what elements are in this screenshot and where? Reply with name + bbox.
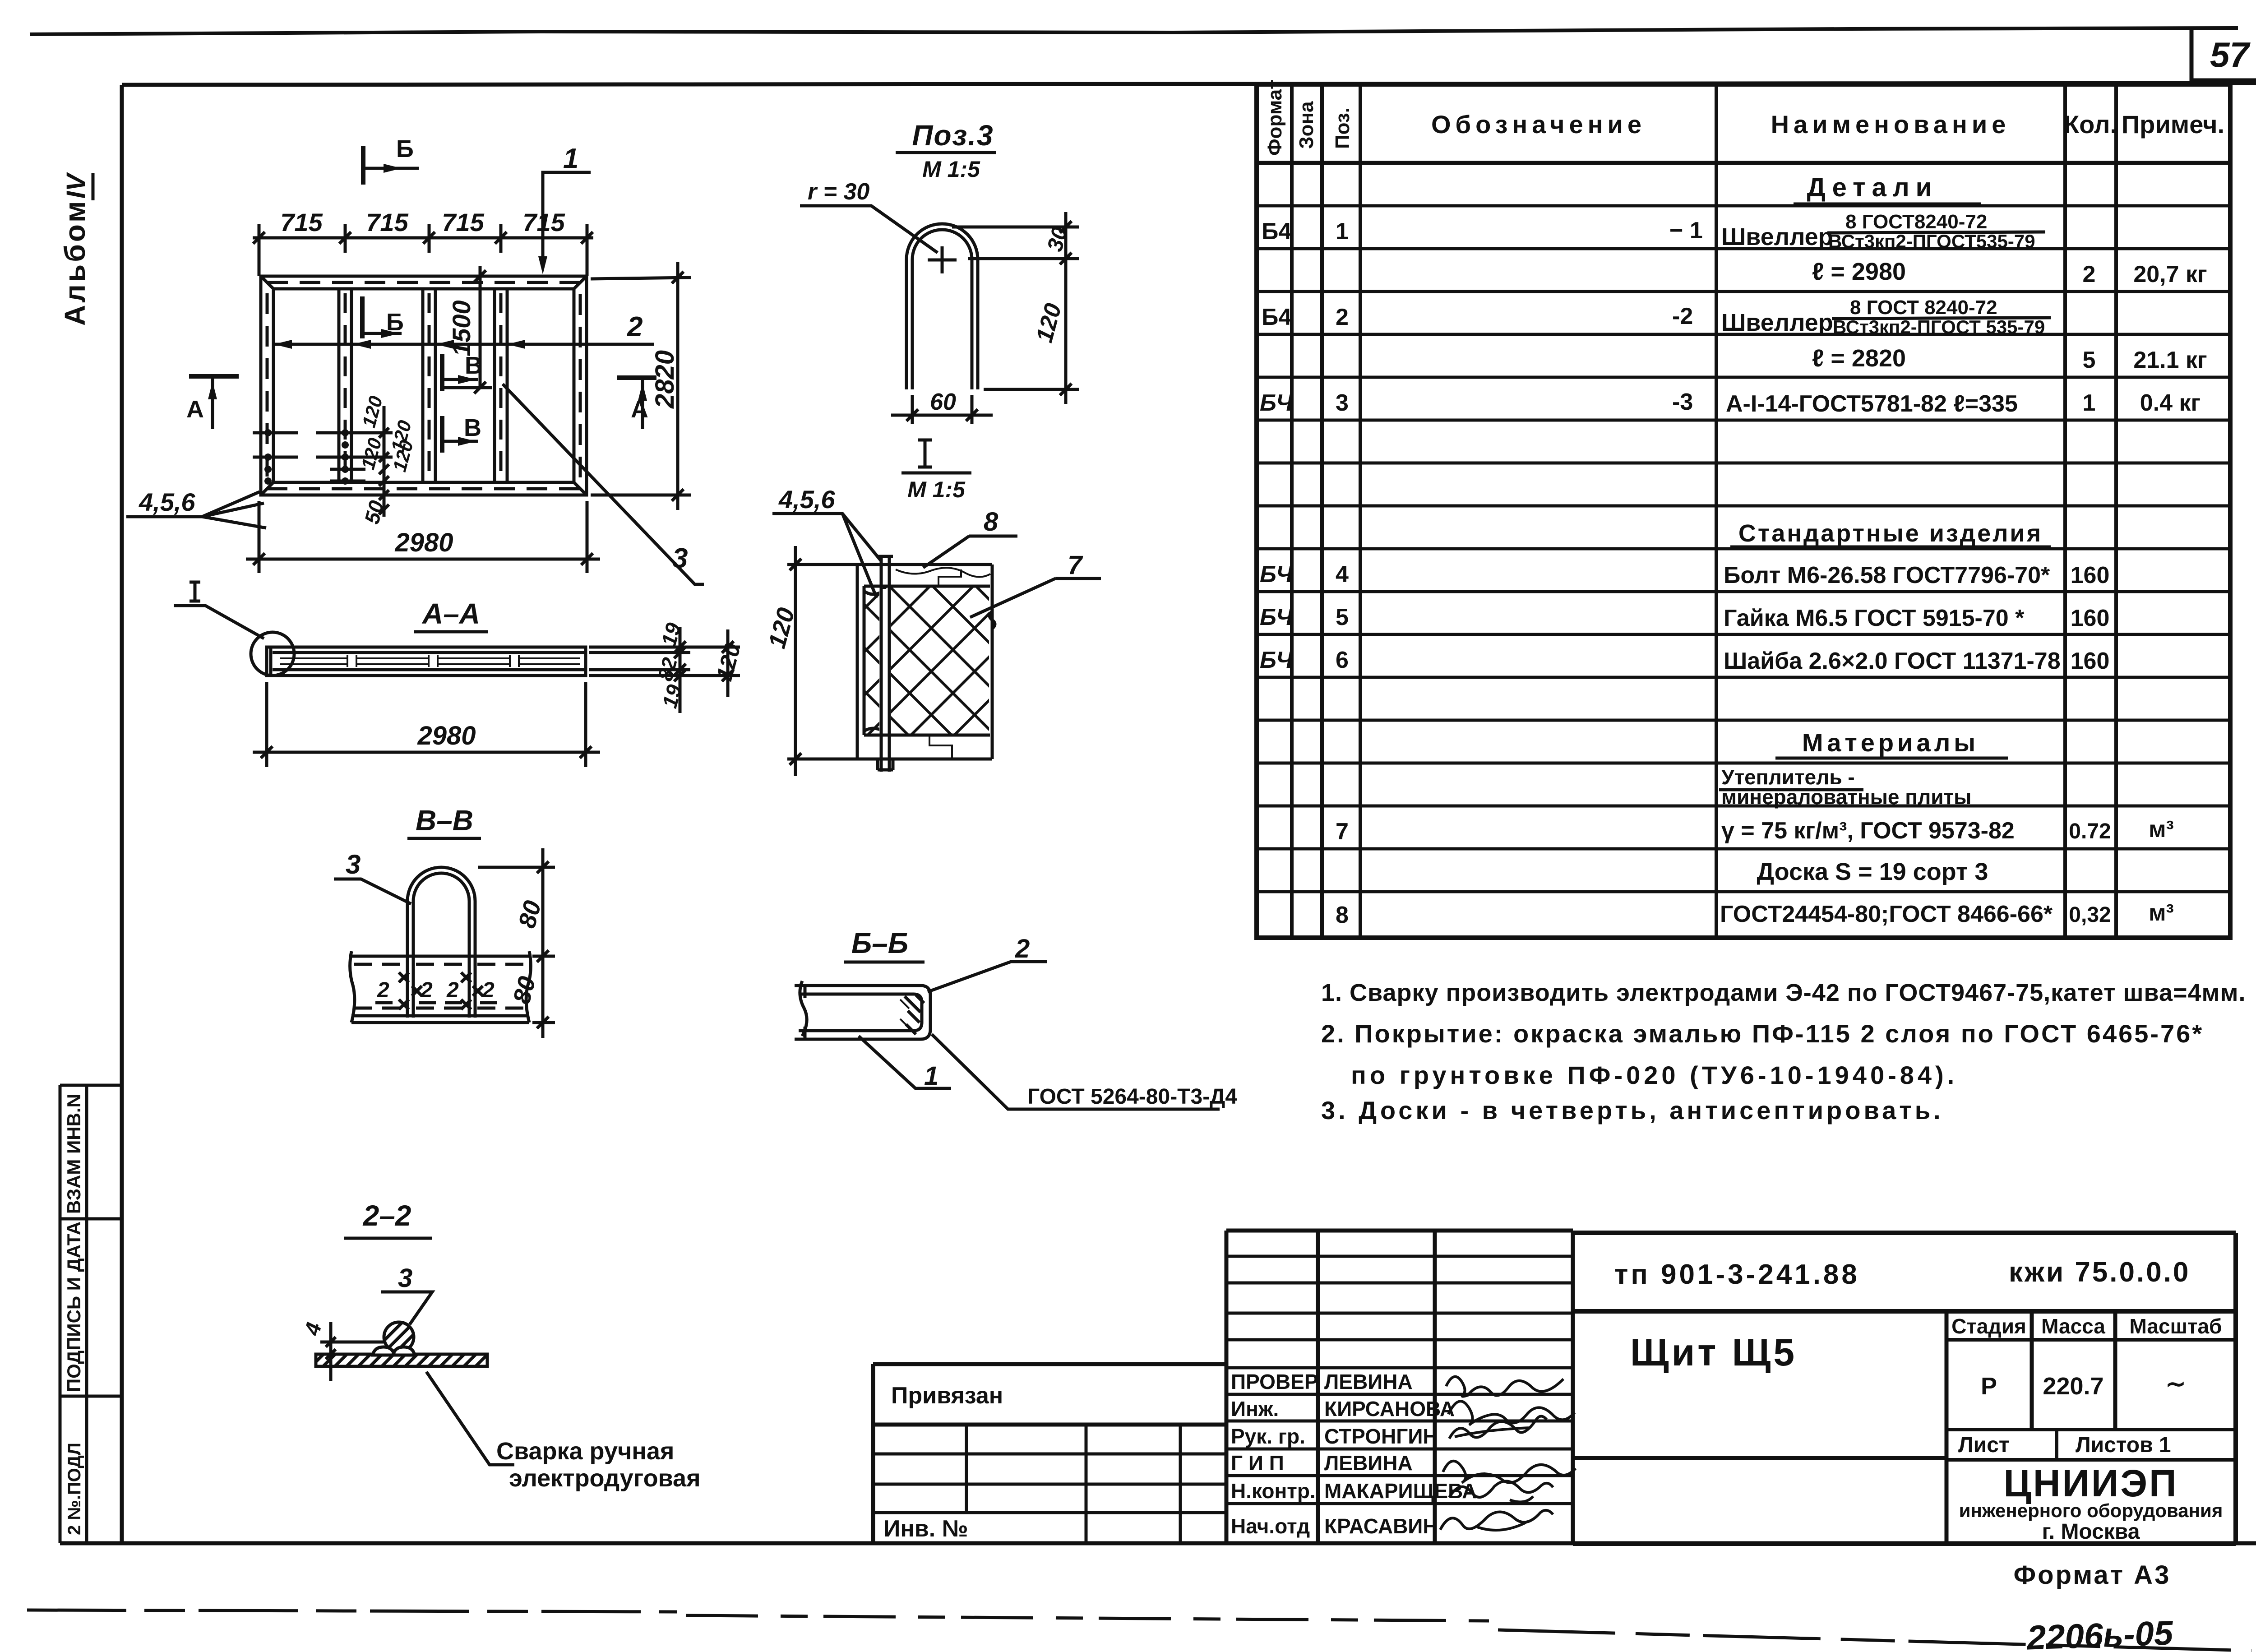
- svg-text:Листов 1: Листов 1: [2076, 1433, 2171, 1457]
- drawing frame: [120, 85, 124, 1543]
- staple in V-V: [407, 867, 475, 1018]
- svg-text:-2: -2: [1672, 303, 1693, 329]
- svg-text:7: 7: [1068, 551, 1083, 580]
- svg-text:220.7: 220.7: [2043, 1373, 2103, 1400]
- svg-text:Поз.: Поз.: [1331, 107, 1354, 149]
- top dimension chain 715 x4: [253, 224, 593, 276]
- svg-text:ЦНИИЭП: ЦНИИЭП: [2004, 1462, 2178, 1504]
- svg-text:2: 2: [627, 311, 643, 342]
- svg-text:4: 4: [1336, 561, 1349, 588]
- svg-text:Шайба 2.6×2.0 ГОСТ 11371-78: Шайба 2.6×2.0 ГОСТ 11371-78: [1724, 648, 2061, 674]
- signatures (cursive scrawls): [1440, 1377, 1576, 1530]
- section mark А (left): [189, 376, 239, 429]
- svg-text:0,32: 0,32: [2069, 903, 2111, 927]
- svg-text:м³: м³: [2149, 816, 2174, 842]
- svg-text:м³: м³: [2149, 900, 2174, 926]
- detail I: bolt poz.4 with nut and washer: [879, 589, 891, 733]
- svg-text:Рук. гр.: Рук. гр.: [1231, 1425, 1305, 1448]
- svg-text:8 ГОСТ8240-72: 8 ГОСТ8240-72: [1845, 211, 1987, 233]
- svg-text:2: 2: [420, 978, 433, 1002]
- svg-text:2. Покрытие: окраска эмалью ПФ: 2. Покрытие: окраска эмалью ПФ-115 2 сло…: [1321, 1019, 2204, 1048]
- svg-text:4,5,6: 4,5,6: [139, 488, 195, 516]
- svg-text:57: 57: [2210, 35, 2251, 74]
- svg-text:Б: Б: [386, 309, 404, 336]
- svg-text:А: А: [631, 396, 648, 423]
- section mark Б (top): [363, 146, 419, 185]
- svg-text:1: 1: [563, 143, 578, 174]
- panel frame plan: outer channel rectangle: [261, 276, 587, 495]
- svg-text:Швеллер: Швеллер: [1721, 309, 1833, 336]
- svg-text:Формат А3: Формат А3: [2014, 1560, 2171, 1590]
- arc center cross: [928, 246, 957, 273]
- svg-text:тп 901-3-241.88: тп 901-3-241.88: [1614, 1259, 1860, 1290]
- svg-text:Привязан: Привязан: [891, 1383, 1003, 1409]
- page number box 57: [2191, 29, 2256, 80]
- leader 3 (staple, plan diagonal): [503, 384, 704, 584]
- svg-text:7: 7: [1336, 819, 1349, 845]
- bottom scan dashed line: [27, 1610, 677, 1612]
- svg-text:6: 6: [1336, 647, 1349, 673]
- detail circle I on A-A: [251, 632, 294, 676]
- svg-text:3: 3: [1336, 390, 1349, 416]
- svg-text:Альбом: Альбом: [59, 199, 91, 326]
- svg-text:КРАСАВИН: КРАСАВИН: [1324, 1514, 1438, 1538]
- detail I: left channel web: [857, 565, 883, 759]
- svg-text:20,7 кг: 20,7 кг: [2133, 261, 2207, 287]
- svg-text:3: 3: [346, 849, 361, 879]
- svg-text:2980: 2980: [417, 721, 476, 750]
- svg-text:0.72: 0.72: [2069, 819, 2111, 843]
- vertical caption: Альбом IV: [59, 172, 93, 326]
- left margin boxes: [60, 1085, 122, 1543]
- sub-label I M1:5: [918, 440, 932, 467]
- svg-text:3: 3: [672, 543, 688, 574]
- svg-text:инженерного оборудования: инженерного оборудования: [1959, 1500, 2223, 1521]
- svg-text:1: 1: [1336, 218, 1349, 245]
- dim 1500 (vertical, inner): [444, 266, 492, 393]
- svg-text:ВСт3кп2-ПГОСТ 535-79: ВСт3кп2-ПГОСТ 535-79: [1833, 316, 2045, 338]
- staple bar cross-section in 2-2: [384, 1322, 414, 1352]
- svg-text:А-I-14-ГОСТ5781-82 ℓ=335: А-I-14-ГОСТ5781-82 ℓ=335: [1726, 391, 2018, 417]
- svg-text:Б: Б: [396, 135, 414, 162]
- svg-text:Доска S = 19 сорт 3: Доска S = 19 сорт 3: [1757, 858, 1988, 885]
- svg-text:ЛЕВИНА: ЛЕВИНА: [1324, 1451, 1413, 1475]
- svg-text:r = 30: r = 30: [808, 179, 869, 205]
- svg-text:Примеч.: Примеч.: [2122, 110, 2224, 139]
- svg-text:2: 2: [1336, 304, 1349, 330]
- svg-text:Стандартные изделия: Стандартные изделия: [1738, 520, 2043, 547]
- svg-text:Болт М6-26.58 ГОСТ7796-70*: Болт М6-26.58 ГОСТ7796-70*: [1724, 562, 2050, 588]
- dim 2820 (right side): [591, 262, 691, 510]
- svg-text:ЛЕВИНА: ЛЕВИНА: [1324, 1370, 1413, 1393]
- svg-text:г. Москва: г. Москва: [2042, 1520, 2140, 1544]
- svg-text:М 1:5: М 1:5: [922, 157, 980, 182]
- svg-text:БЧ: БЧ: [1260, 561, 1293, 588]
- svg-text:-3: -3: [1672, 389, 1693, 415]
- svg-text:В: В: [465, 352, 482, 379]
- weld zone hatch in B-B: [905, 995, 924, 1034]
- svg-text:ПОДПИСЬ И ДАТА: ПОДПИСЬ И ДАТА: [63, 1222, 84, 1392]
- svg-text:ℓ = 2980: ℓ = 2980: [1812, 258, 1906, 285]
- svg-text:Щит Щ5: Щит Щ5: [1630, 1331, 1797, 1374]
- svg-text:1. Сварку производить электрод: 1. Сварку производить электродами Э-42 п…: [1321, 979, 2246, 1006]
- svg-text:2: 2: [1015, 934, 1030, 963]
- dim 120 (detail I, left): [787, 546, 859, 776]
- svg-text:Сварка ручная: Сварка ручная: [496, 1438, 674, 1465]
- svg-text:60: 60: [930, 389, 956, 415]
- svg-text:Лист: Лист: [1958, 1433, 2009, 1457]
- svg-text:СТРОНГИН: СТРОНГИН: [1324, 1425, 1438, 1448]
- svg-text:кжи 75.0.0.0: кжи 75.0.0.0: [2009, 1257, 2190, 1288]
- title block: signature table: [1226, 1231, 1573, 1543]
- small dim chain 120/120/120/120/50: [253, 406, 393, 517]
- svg-text:Обозначение: Обозначение: [1431, 110, 1646, 139]
- svg-text:В–В: В–В: [416, 804, 473, 837]
- weld x-marks on staple legs: [399, 972, 483, 1009]
- svg-text:ℓ = 2820: ℓ = 2820: [1812, 345, 1906, 372]
- svg-text:А: А: [186, 396, 204, 423]
- dim 2980 under A-A: [253, 682, 600, 767]
- svg-text:2: 2: [2083, 261, 2096, 287]
- svg-text:КИРСАНОВА: КИРСАНОВА: [1324, 1397, 1455, 1421]
- svg-text:ПРОВЕР.: ПРОВЕР.: [1231, 1370, 1321, 1393]
- stud 3 (poz.2 channel): [495, 289, 507, 482]
- svg-text:ГОСТ24454-80;ГОСТ 8466-66*: ГОСТ24454-80;ГОСТ 8466-66*: [1720, 901, 2053, 927]
- dim 4 (weld height): [320, 1322, 384, 1381]
- svg-text:БЧ: БЧ: [1260, 390, 1293, 416]
- svg-text:Гайка М6.5 ГОСТ 5915-70 *: Гайка М6.5 ГОСТ 5915-70 *: [1724, 605, 2025, 631]
- BOM table grid: [1257, 84, 2230, 938]
- svg-text:1: 1: [2083, 390, 2096, 416]
- svg-text:БЧ: БЧ: [1260, 604, 1293, 630]
- title block: Привязан box: [873, 1364, 1226, 1543]
- svg-text:ВСт3кп2-ПГОСТ535-79: ВСт3кп2-ПГОСТ535-79: [1828, 231, 2035, 252]
- svg-text:А–А: А–А: [421, 597, 480, 630]
- svg-text:Инв. №: Инв. №: [883, 1516, 968, 1542]
- svg-text:ВЗАМ ИНВ.N: ВЗАМ ИНВ.N: [63, 1094, 84, 1214]
- svg-text:М 1:5: М 1:5: [907, 477, 966, 502]
- svg-text:2 №.ПОДЛ: 2 №.ПОДЛ: [65, 1443, 84, 1535]
- staple poz.3 U-bar: [906, 224, 978, 389]
- svg-text:Кол.: Кол.: [2064, 110, 2117, 139]
- top scan edge line: [30, 28, 2238, 34]
- hidden flange dashed lines of frame: [267, 282, 580, 489]
- svg-text:γ = 75 кг/м³, ГОСТ 9573-82: γ = 75 кг/м³, ГОСТ 9573-82: [1721, 818, 2015, 844]
- svg-text:8 ГОСТ 8240-72: 8 ГОСТ 8240-72: [1850, 296, 1997, 319]
- svg-text:160: 160: [2071, 648, 2110, 674]
- svg-text:Б–Б: Б–Б: [851, 927, 908, 959]
- section mark А (right): [617, 378, 656, 429]
- svg-text:Н.контр.: Н.контр.: [1231, 1479, 1316, 1503]
- plate in 2-2 (hatched): [316, 1354, 487, 1366]
- svg-text:160: 160: [2071, 605, 2110, 631]
- svg-text:2–2: 2–2: [363, 1199, 411, 1232]
- weld beads: [373, 1347, 415, 1355]
- svg-text:Нач.отд: Нач.отд: [1231, 1514, 1310, 1538]
- dims 19/82/19 and 120 right of A-A: [589, 627, 740, 713]
- detail I: bottom board (poz.8): [857, 735, 992, 759]
- svg-text:Наименование: Наименование: [1771, 110, 2011, 139]
- svg-text:∼: ∼: [2165, 1370, 2186, 1397]
- dim 60 (bottom of staple): [891, 395, 993, 424]
- svg-text:Б4: Б4: [1262, 304, 1291, 330]
- svg-text:электродуговая: электродуговая: [509, 1465, 701, 1492]
- stud 2 (poz.2 channel): [423, 289, 435, 482]
- svg-text:160: 160: [2071, 562, 2110, 588]
- svg-text:Масштаб: Масштаб: [2130, 1314, 2222, 1338]
- section mark В (upper): [442, 354, 478, 391]
- svg-text:2: 2: [377, 978, 389, 1002]
- svg-text:1: 1: [924, 1061, 938, 1091]
- svg-text:1500: 1500: [447, 300, 476, 356]
- svg-text:2980: 2980: [394, 528, 453, 557]
- svg-text:8: 8: [1336, 902, 1349, 928]
- channel flange plate in V-V: [350, 951, 531, 1023]
- svg-text:Р: Р: [1981, 1373, 1997, 1400]
- svg-text:2: 2: [482, 978, 495, 1002]
- svg-text:0.4 кг: 0.4 кг: [2140, 390, 2201, 416]
- stud 1 (poz.2 channel): [339, 289, 351, 482]
- svg-text:Формат: Формат: [1264, 79, 1286, 156]
- svg-text:715: 715: [280, 208, 323, 236]
- svg-text:В: В: [464, 414, 481, 441]
- svg-text:Масса: Масса: [2041, 1314, 2105, 1338]
- svg-text:3: 3: [398, 1263, 412, 1293]
- svg-text:21.1 кг: 21.1 кг: [2133, 347, 2207, 373]
- detail I: top board (poz.8): [857, 565, 992, 759]
- svg-text:Детали: Детали: [1807, 173, 1938, 202]
- callout 2 (studs poz.2): [274, 343, 654, 346]
- detail I: right break edge: [989, 611, 995, 629]
- svg-text:Поз.3: Поз.3: [912, 119, 994, 152]
- dim 30 / 120 (right of staple): [952, 212, 1079, 404]
- svg-text:− 1: − 1: [1669, 217, 1703, 244]
- svg-text:Зона: Зона: [1295, 101, 1318, 149]
- section mark Б (inner): [362, 296, 402, 338]
- title block: right part: [1573, 1233, 2236, 1544]
- channel profile in B-B: [795, 981, 930, 1039]
- callout 1 (top channel poz.1): [543, 172, 591, 264]
- svg-text:минераловатные плиты: минераловатные плиты: [1721, 785, 1971, 809]
- svg-text:ГОСТ 5264-80-Т3-Д4: ГОСТ 5264-80-Т3-Д4: [1027, 1085, 1237, 1109]
- section mark В (lower): [442, 416, 478, 453]
- leader 1 in B-B: [859, 1036, 951, 1088]
- svg-text:5: 5: [1336, 604, 1349, 630]
- svg-text:БЧ: БЧ: [1260, 647, 1293, 673]
- section A-A panel bar: [267, 647, 586, 676]
- svg-text:715: 715: [366, 208, 408, 236]
- svg-text:8: 8: [984, 507, 999, 537]
- svg-text:Швеллер: Швеллер: [1721, 223, 1833, 250]
- svg-text:IV: IV: [61, 172, 91, 199]
- detail I: mineral wool (poz.7) cross-hatched: [865, 587, 989, 734]
- svg-text:Б4: Б4: [1262, 218, 1291, 245]
- dims 80/80 right of V-V: [478, 848, 555, 1038]
- svg-text:715: 715: [442, 208, 484, 236]
- svg-text:по грунтовке ПФ-020 (ТУ6-10-19: по грунтовке ПФ-020 (ТУ6-10-1940-84).: [1351, 1061, 1958, 1089]
- svg-text:Стадия: Стадия: [1951, 1314, 2026, 1338]
- svg-text:5: 5: [2083, 347, 2096, 373]
- dim 2980 (bottom): [246, 501, 600, 573]
- svg-text:Инж.: Инж.: [1231, 1397, 1279, 1421]
- weld size labels 2: [377, 978, 495, 1002]
- svg-text:4,5,6: 4,5,6: [778, 485, 835, 514]
- bolt marks on left member: [264, 429, 349, 485]
- leader 2 in B-B: [928, 962, 1047, 992]
- svg-text:3. Доски - в четверть, антисеп: 3. Доски - в четверть, антисептировать.: [1321, 1096, 1944, 1124]
- svg-text:Материалы: Материалы: [1802, 728, 1979, 757]
- svg-text:Г И П: Г И П: [1231, 1451, 1284, 1475]
- svg-text:2: 2: [446, 978, 459, 1002]
